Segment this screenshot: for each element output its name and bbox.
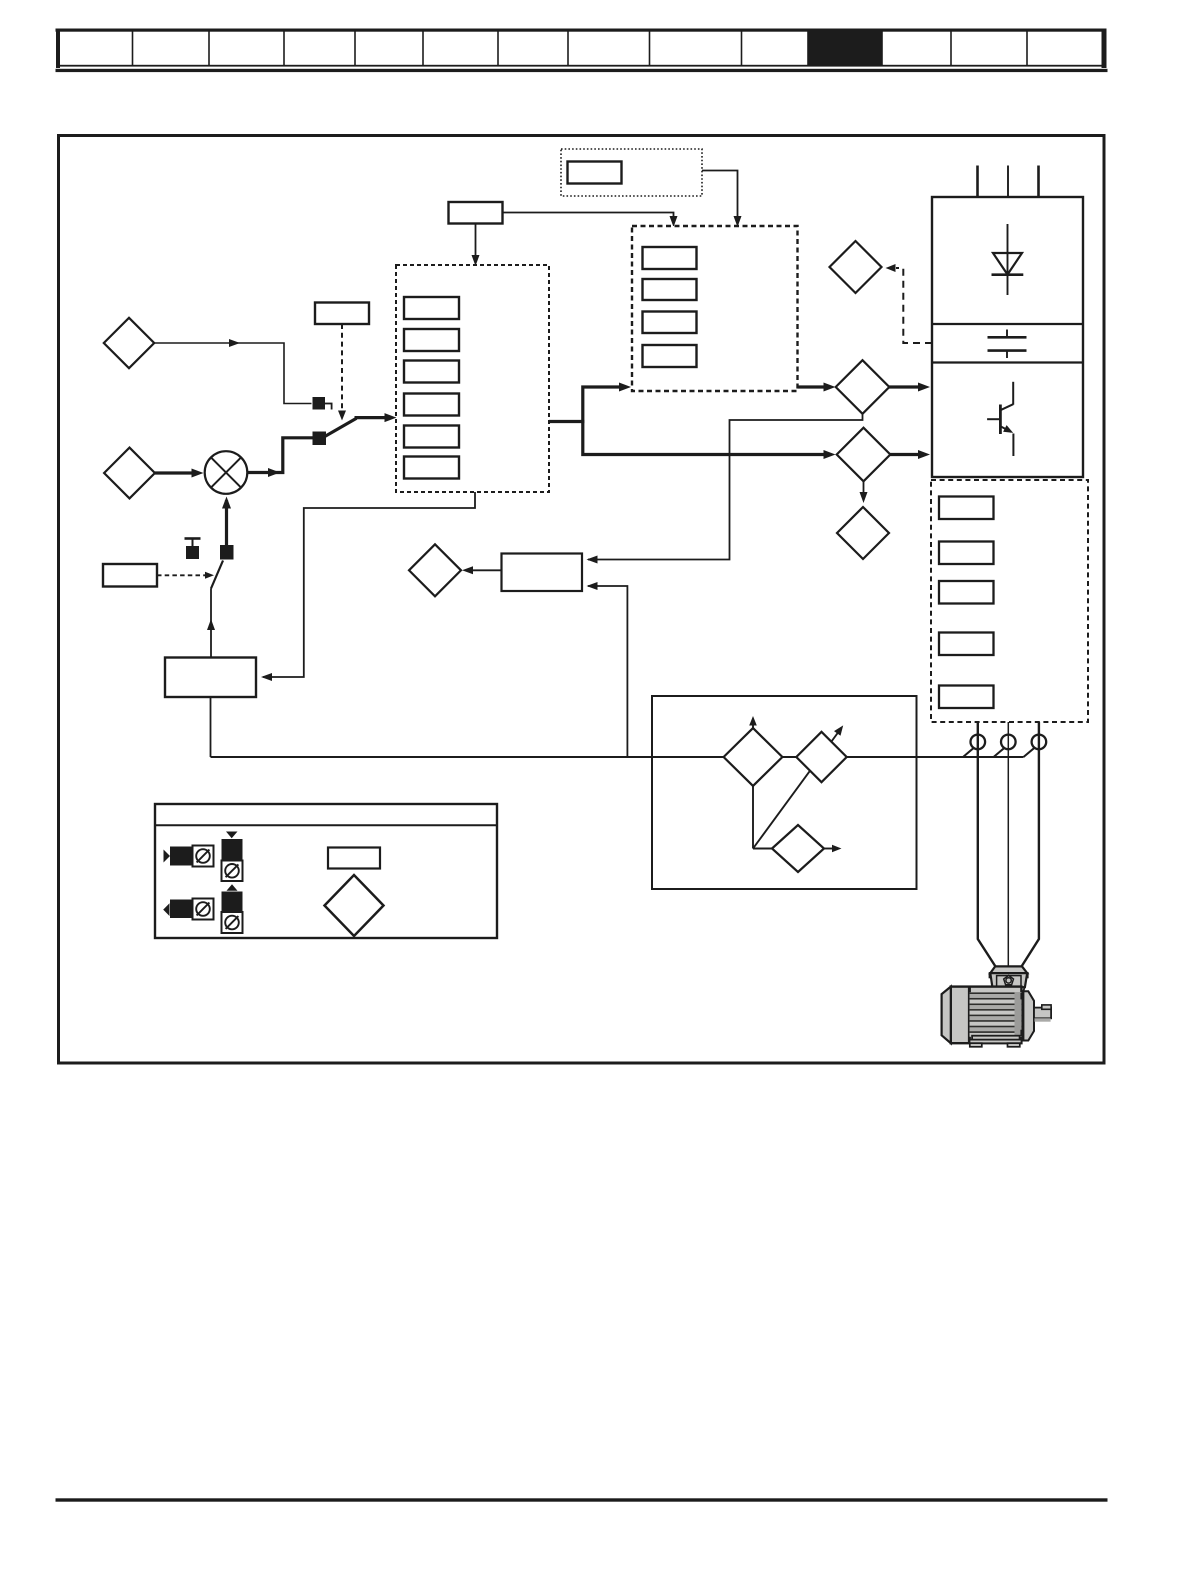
header cell dividers (133, 30, 1028, 66)
wire from sequencer box up to lower switch (207, 589, 215, 658)
wire from post-ramp node to frequency box (587, 415, 863, 564)
footer rule (56, 1498, 1108, 1501)
parameter box 3 in ramp box (404, 361, 459, 383)
induction motor (942, 966, 1052, 1046)
header bottom rule (56, 69, 1108, 72)
dashed control line from reference select to switch (338, 324, 346, 421)
key box (155, 804, 497, 938)
switch pivot contact (square) (313, 432, 327, 446)
parameter box: trim select (103, 564, 157, 587)
current transducer circles (971, 735, 1047, 750)
parameter box 2 in ramp box (404, 329, 459, 351)
switch blade (323, 418, 357, 437)
parameter box 2 in motor box (939, 542, 994, 565)
diamond parameter: current magnitude (724, 716, 783, 786)
parameter box 4 in ramp box (404, 394, 459, 416)
key: read-write parameter box (328, 848, 380, 869)
inverter output wires through CTs to motor (978, 722, 1039, 967)
dashed control line to lower switch (157, 572, 214, 579)
wire from analog reference diamond to switch upper contact (154, 339, 311, 404)
parameter box: sequencer (165, 658, 256, 698)
wire post-ramp diamond down to motor-frequency diamond (860, 481, 868, 503)
diamond parameter: active current (796, 732, 846, 782)
dashed wire from DC bus to diamond (886, 264, 933, 343)
wire from sequencer down to current bus (210, 697, 212, 757)
key: input parameter black box 2 (170, 900, 193, 919)
lower switch blade (211, 561, 223, 589)
diagonal wire through active current diamond (753, 725, 843, 848)
current feedback box (652, 696, 917, 889)
key: output arrow down (226, 832, 238, 839)
key: input parameter black box (170, 847, 193, 866)
diagram frame (59, 136, 1105, 1064)
key: input terminal arrow left (163, 903, 169, 916)
diamond parameter: post-ramp reference (837, 428, 891, 482)
thick wire: ramp box output tee (549, 383, 836, 460)
summing junction (circle with X) (205, 451, 248, 494)
three-phase supply lines (978, 166, 1039, 198)
parameter box: frequency slaving (502, 554, 583, 592)
CT tap diagonals (963, 748, 1034, 757)
parameter box 1 in menu box (643, 247, 697, 269)
key: read-only parameter diamond (325, 875, 384, 936)
parameter box inside top dotted box (568, 162, 622, 184)
parameter box 4 in motor box (939, 633, 994, 656)
parameter box 5 in motor box (939, 686, 994, 709)
key: input terminal symbol 2 (193, 899, 214, 920)
current feedback bus (211, 756, 1024, 758)
DC bus capacitor symbol (988, 330, 1027, 359)
key: output terminal symbol 2 (222, 912, 243, 933)
header active cell (filled black) (808, 30, 882, 67)
parameter box: reference select (315, 303, 369, 325)
diamond parameter: analog reference (104, 318, 154, 368)
power stage section dividers (932, 324, 1083, 363)
lower switch contact (square) (220, 545, 234, 560)
thick wire: summing junction to switch pivot (247, 438, 312, 477)
wire from current bus to frequency box (587, 582, 628, 757)
parameter box 3 in menu box (643, 312, 697, 334)
parameter box 4 in menu box (643, 345, 697, 367)
key box title underline (155, 824, 497, 826)
parameter box 6 in ramp box (404, 457, 459, 479)
key: input terminal symbol (193, 846, 214, 867)
thick wire: reference diamond to summing junction (155, 469, 204, 478)
wire to menu dashed box (503, 213, 678, 228)
diamond parameter: motor frequency (837, 507, 889, 559)
thick wire: switch output to ramp box (355, 413, 397, 422)
dashed box: reference shaping menu (632, 226, 798, 391)
diamond parameter: DC bus voltage (830, 241, 882, 293)
wire from top dotted box to menu box (702, 171, 742, 228)
thick wire: pre-ramp diamond to inverter (889, 383, 930, 392)
parameter box 2 in menu box (643, 279, 697, 300)
dotted box: reference selected indicator (561, 149, 702, 196)
feedback wire from ramp box to sequencer (261, 492, 475, 681)
diamond parameter: magnetising current (772, 825, 842, 872)
diamond parameter: pre-ramp reference (836, 360, 890, 414)
wire down to ramp dotted box (472, 224, 480, 267)
parameter box 1 in ramp box (404, 297, 459, 319)
rectifier diode symbol (992, 224, 1024, 295)
thick wire: trim input up into summing junction (222, 497, 231, 546)
thick wire: menu box to post-ramp diamond (798, 383, 836, 392)
parameter box 3 in motor box (939, 581, 994, 604)
key: output arrow up (227, 884, 238, 890)
key: input terminal arrow (164, 850, 171, 863)
dashed box: motor parameters (931, 480, 1088, 722)
inverter IGBT symbol (987, 382, 1013, 456)
wire: junction under current magnitude diamond (753, 786, 773, 849)
switch upper contact (square) (313, 397, 326, 410)
key: output terminal symbol (222, 861, 243, 882)
key: output parameter black box (222, 839, 243, 861)
key: output parameter black box 2 (222, 892, 243, 913)
open contact with T bar (185, 539, 201, 560)
parameter box 5 in ramp box (404, 426, 459, 448)
diamond parameter: output frequency (409, 544, 461, 596)
power stage block (932, 197, 1083, 477)
wire from frequency box to output frequency diamond (462, 566, 502, 574)
switch upper contact stub (325, 404, 333, 410)
header nav table frame (56, 29, 1107, 69)
thick wire: post-ramp diamond to inverter (890, 450, 930, 459)
dotted box: ramp control (396, 265, 549, 492)
parameter box 1 in motor box (939, 497, 994, 520)
parameter box: sequencer reference (449, 202, 503, 224)
diamond parameter: speed reference input (104, 448, 155, 499)
